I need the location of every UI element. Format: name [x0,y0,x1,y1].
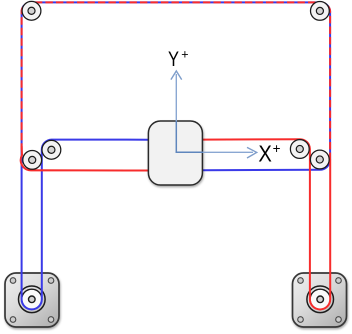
idler pulley mid-right upper [290,140,309,159]
idler pulley mid-left upper [42,140,61,159]
axis Y arrowhead [171,71,182,80]
idler pulley top-left [22,1,41,20]
motor left screw holes [10,278,54,323]
belt B red solid: carriage right-top, mid-right upper idler, right motor [202,139,330,309]
motor right boss [310,289,330,309]
belt B red dashed over shared rails [22,2,331,159]
axis X line (inside carriage) [176,151,203,153]
motor right face ring [307,286,334,313]
motor right (stepper, bottom-right) [293,273,347,327]
motor left face ring [19,286,46,313]
motor left shaft [29,296,36,303]
motor left boss [22,289,42,309]
axis Y line (above carriage) [175,74,177,121]
svg-text:+: + [181,48,188,62]
axis X arrowhead [247,147,257,158]
svg-text:X: X [258,141,272,167]
axis Y line (inside carriage) [175,121,177,153]
svg-text:+: + [273,141,281,156]
svg-text:Y: Y [168,47,179,71]
idler pulley top-right [311,2,330,21]
idler pulley mid-right lower [310,150,329,169]
motor right screw holes [298,278,342,323]
motor left (stepper, bottom-left) [5,273,59,327]
belt B red solid: left rail bottom, mid-left lower idler, carriage left-bottom [21,146,149,171]
carriage [148,121,202,185]
motor right shaft [317,296,324,303]
axis X line (right of carriage) [203,151,253,153]
idler pulley mid-left lower [23,151,42,170]
